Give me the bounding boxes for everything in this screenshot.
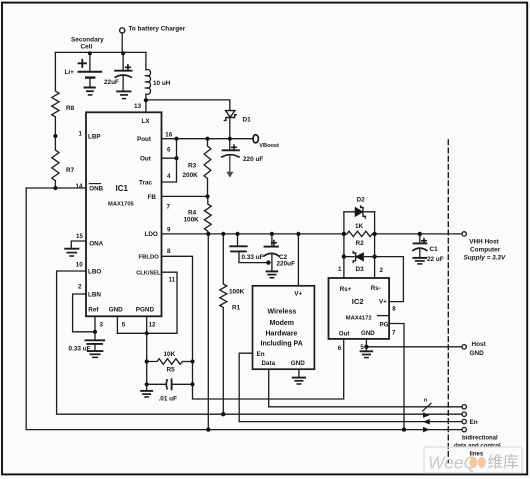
svg-text:Secondary: Secondary [71,37,104,44]
svg-text:0.33 uF: 0.33 uF [69,346,91,353]
svg-text:Computer: Computer [470,247,501,254]
svg-text:R3: R3 [188,163,197,170]
svg-text:LBP: LBP [88,134,101,141]
svg-text:En: En [470,419,478,426]
svg-text:MAX4172: MAX4172 [346,315,372,321]
svg-text:6: 6 [167,146,171,153]
svg-text:220uF: 220uF [277,261,296,268]
svg-text:VHH Host: VHH Host [469,239,499,246]
svg-text:V+: V+ [379,299,387,306]
svg-text:R4: R4 [188,210,197,217]
svg-text:22uF: 22uF [104,79,119,86]
svg-text:ONA: ONA [89,241,103,248]
svg-text:V+: V+ [294,291,302,298]
svg-text:Rs-: Rs- [371,285,381,292]
svg-text:VBoost: VBoost [259,143,279,149]
svg-text:IC1: IC1 [116,184,129,193]
svg-text:Host: Host [472,341,487,348]
svg-text:R1: R1 [232,305,241,312]
svg-text:8: 8 [392,305,396,312]
svg-text:To battery Charger: To battery Charger [129,26,186,33]
svg-text:12: 12 [149,322,156,329]
svg-text:PG: PG [380,322,389,329]
svg-text:Pout: Pout [137,136,152,143]
svg-text:8: 8 [167,248,171,255]
svg-text:En: En [257,351,265,358]
svg-text:2: 2 [78,284,82,291]
svg-text:R8: R8 [66,105,75,112]
svg-text:Trac: Trac [139,179,152,186]
svg-text:维库: 维库 [488,453,519,471]
svg-text:n: n [424,398,428,404]
svg-text:R7: R7 [66,167,75,174]
svg-text:R2: R2 [356,240,365,247]
svg-text:200K: 200K [183,172,199,179]
svg-text:0.33 uF: 0.33 uF [242,254,264,261]
svg-text:LX: LX [142,118,151,125]
svg-text:100K: 100K [229,289,245,296]
svg-text:D1: D1 [243,117,252,124]
svg-text:GND: GND [361,330,375,337]
svg-text:Li+: Li+ [65,69,75,76]
svg-text:4: 4 [167,173,171,180]
svg-text:Modem: Modem [270,320,295,327]
svg-text:10: 10 [76,262,83,269]
svg-text:14: 14 [76,183,83,190]
svg-text:CLK/SEL: CLK/SEL [136,271,161,277]
svg-text:7: 7 [167,204,171,211]
svg-text:Rs+: Rs+ [340,286,352,293]
svg-text:7: 7 [392,330,396,337]
svg-text:16: 16 [165,131,172,138]
svg-text:10 uH: 10 uH [153,80,171,87]
svg-text:IC2: IC2 [352,297,364,306]
svg-text:GND: GND [291,360,305,367]
svg-text:3: 3 [100,322,104,329]
svg-text:R5: R5 [167,367,176,374]
svg-text:Out: Out [140,156,152,163]
svg-text:LBO: LBO [88,269,101,276]
svg-text:Wireless: Wireless [268,309,297,316]
svg-text:1: 1 [79,131,83,138]
svg-text:Supply = 3.3V: Supply = 3.3V [464,255,506,262]
svg-text:22 uF: 22 uF [427,256,444,263]
svg-text:100K: 100K [184,217,200,224]
svg-text:5: 5 [360,344,364,351]
svg-text:GND: GND [109,307,123,314]
svg-text:220 uF: 220 uF [243,156,263,163]
svg-text:10K: 10K [164,351,176,358]
svg-text:1K: 1K [355,223,364,230]
svg-text:9: 9 [167,227,171,234]
svg-text:.01 uF: .01 uF [159,396,178,403]
svg-text:GND: GND [470,350,485,357]
svg-text:D2: D2 [357,197,366,204]
svg-text:FBLDO: FBLDO [139,255,160,261]
svg-text:C1: C1 [430,246,439,253]
svg-text:FB: FB [148,194,157,201]
svg-text:MAX1705: MAX1705 [108,202,135,208]
svg-text:PGND: PGND [136,307,155,314]
svg-text:Data: Data [262,360,276,367]
svg-text:1: 1 [338,266,342,273]
svg-text:15: 15 [76,233,83,240]
svg-text:6: 6 [338,345,342,352]
svg-text:Hardware: Hardware [266,330,298,337]
svg-text:D3: D3 [356,266,365,273]
svg-text:2: 2 [380,267,384,274]
svg-text:LBN: LBN [88,292,101,299]
svg-text:Out: Out [339,331,350,338]
svg-text:bidirectional: bidirectional [462,436,498,442]
svg-text:LDO: LDO [145,231,158,238]
svg-text:Including PA: Including PA [261,340,303,347]
svg-text:Ref: Ref [88,307,99,314]
svg-text:ONB: ONB [89,186,103,193]
svg-text:13: 13 [134,103,142,110]
svg-text:Cell: Cell [81,44,93,51]
svg-text:5: 5 [122,322,126,329]
svg-text:11: 11 [169,277,176,284]
